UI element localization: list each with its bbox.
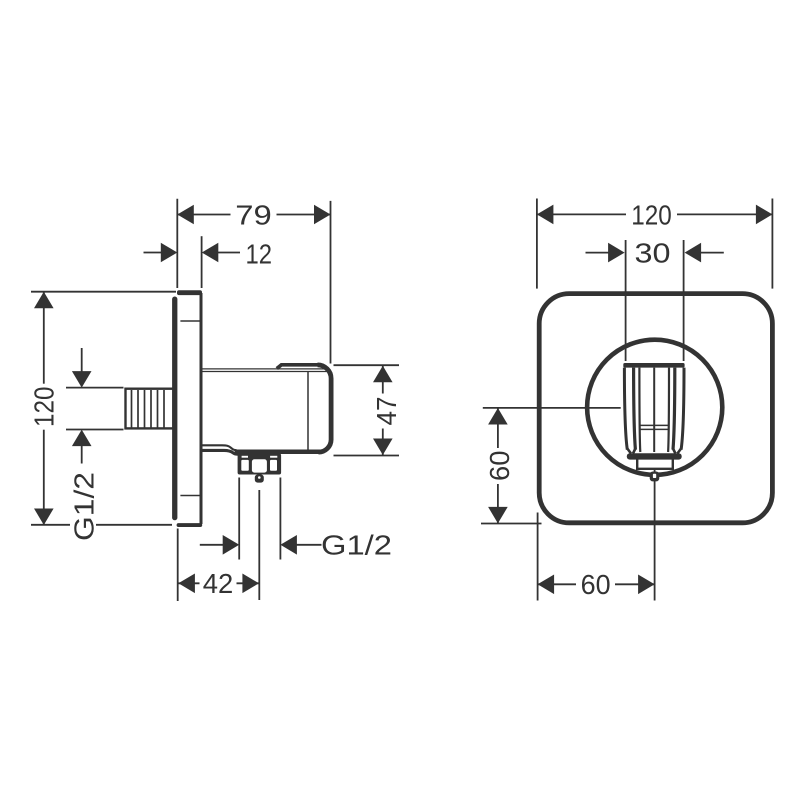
extension line: body right face (right ref for 79) bbox=[330, 201, 332, 364]
body outline: top lip, right face, bottom bbox=[235, 365, 332, 452]
arrowheads of dimension 120 bbox=[34, 292, 54, 525]
body bottom lower contour with step bbox=[203, 450, 239, 454]
extension line: flange wall face (left ref for 79 and 12) bbox=[176, 199, 178, 288]
extension line: flange front face (right ref for 12) bbox=[201, 236, 203, 288]
dimension line G1/2 outlet nut (outside arrows) bbox=[200, 544, 322, 546]
nut flat window right bbox=[270, 460, 277, 471]
value label G1/2 supply stub (rotated) bbox=[68, 471, 99, 541]
arrowheads of dimension G1/2 outlet nut bbox=[223, 535, 297, 555]
nut top slot left bbox=[242, 456, 248, 458]
body right face thick edge bbox=[318, 365, 332, 452]
value label 60 (bottom) bbox=[576, 569, 615, 600]
arrowheads of dimension G1/2 supply stub bbox=[72, 371, 92, 446]
holder foot chamfer left bbox=[627, 449, 635, 454]
body top second edge line bbox=[203, 371, 328, 373]
dimension line 42 bbox=[178, 582, 259, 584]
holder lower box bbox=[637, 460, 673, 469]
svg-text:120: 120 bbox=[631, 199, 672, 230]
holder collar circle bbox=[587, 340, 722, 475]
svg-text:47: 47 bbox=[371, 397, 402, 426]
body inner rim line bbox=[307, 372, 309, 450]
arrowheads of dimension 60 (left) bbox=[488, 408, 508, 523]
arrowheads of dimension 60 (bottom) bbox=[538, 575, 655, 595]
flange inner edge line upper bbox=[180, 320, 199, 322]
svg-text:120: 120 bbox=[29, 386, 60, 427]
svg-text:G1/2: G1/2 bbox=[321, 530, 392, 561]
spigot tab hole bbox=[258, 476, 261, 479]
holder bottom tab bbox=[650, 472, 660, 482]
svg-text:60: 60 bbox=[484, 450, 515, 481]
holder cup seam line lower bbox=[640, 428, 668, 430]
flange top cap bbox=[177, 290, 202, 295]
dimension line 12 (outside arrows) bbox=[144, 252, 241, 254]
thread hatch lines of supply stub bbox=[132, 390, 165, 428]
svg-text:G1/2: G1/2 bbox=[68, 472, 99, 541]
holder bottom bar bbox=[627, 453, 682, 459]
holder outer rail right bbox=[681, 368, 684, 450]
dimension line 120 (left view height) bbox=[43, 292, 45, 525]
outlet hex nut body bbox=[238, 454, 282, 475]
holder top bar bbox=[623, 363, 684, 368]
holder cup seam line upper bbox=[640, 424, 668, 426]
arrowheads of dimension 12 bbox=[161, 243, 219, 263]
escutcheon square plate bbox=[539, 294, 772, 523]
holder inner rail left bbox=[634, 368, 636, 450]
arrowheads of dimension 42 bbox=[178, 574, 259, 594]
flange bottom cap bbox=[177, 523, 203, 527]
holder foot chamfer right bbox=[673, 449, 681, 454]
outlet spigot tab bbox=[255, 475, 264, 483]
dimension line 30 (outside arrows) bbox=[586, 252, 724, 254]
extension line: escutcheon right edge (ref for 120 width) bbox=[771, 199, 773, 289]
extension line: body bottom (bottom ref for 47) bbox=[334, 455, 400, 457]
holder cup left edge bbox=[638, 368, 641, 452]
svg-text:42: 42 bbox=[203, 568, 234, 599]
dimension line 60 (left vertical) bbox=[497, 408, 499, 523]
extension line: escutcheon left edge (ref for 120 width) bbox=[536, 199, 538, 289]
extension line: holder right (ref for 30) bbox=[683, 240, 685, 361]
svg-text:79: 79 bbox=[235, 199, 272, 230]
nut top slot right bbox=[270, 456, 277, 458]
extension line: outlet nut left (ref for bottom G1/2) bbox=[238, 478, 240, 560]
svg-text:30: 30 bbox=[635, 238, 671, 269]
extension line: flange top (top ref for 120) bbox=[31, 291, 176, 293]
extension line: escutcheon left edge (left ref for bottom 60) bbox=[537, 513, 539, 601]
arrowheads of dimension 47 bbox=[373, 366, 393, 455]
holder outer rail left bbox=[624, 368, 627, 450]
svg-text:60: 60 bbox=[581, 569, 611, 600]
dimension line 60 (bottom horizontal) bbox=[538, 583, 655, 585]
value label 120 (front) bbox=[626, 199, 677, 230]
svg-text:12: 12 bbox=[246, 238, 273, 269]
flange wall seal bar bbox=[172, 297, 177, 521]
value label 60 (left, rotated) bbox=[484, 448, 515, 484]
body bottom upper contour with step bbox=[203, 445, 237, 450]
arrowheads of dimension 30 bbox=[608, 243, 701, 263]
value label 47 (rotated) bbox=[371, 394, 402, 429]
extension line: escutcheon bottom (bottom ref for left 60) bbox=[481, 523, 542, 525]
extension line: body top (top ref for 47) bbox=[334, 364, 400, 366]
extension line: outlet axis (right ref for 42) bbox=[258, 490, 260, 600]
flange inner edge line lower bbox=[180, 495, 199, 497]
holder bottom tab notch bbox=[653, 474, 656, 478]
body top silhouette line bbox=[203, 368, 328, 370]
extension line: horizontal centerline (top ref for 60) bbox=[483, 407, 621, 409]
holder cup center seam bbox=[653, 368, 655, 452]
body bottom edge line bbox=[235, 449, 327, 451]
nut flat window left bbox=[241, 460, 249, 471]
arrowheads of dimension 120 (front) bbox=[537, 205, 773, 225]
extension line: supply stub bottom (ref for G1/2) bbox=[66, 429, 124, 431]
value label 120 (rotated) bbox=[29, 384, 60, 430]
extension line: wall plane (left ref for 42) bbox=[177, 529, 179, 602]
extension line: holder left (ref for 30) bbox=[625, 240, 627, 361]
extension line: flange bottom (bottom ref for 120) bbox=[31, 524, 172, 526]
flange front face line bbox=[200, 293, 203, 524]
dimension line G1/2 supply stub (outside arrows) bbox=[81, 348, 83, 464]
threaded supply stub outline bbox=[126, 389, 174, 429]
value label 42 bbox=[200, 568, 237, 599]
dimension line 79 bbox=[177, 214, 330, 216]
dimension line 120 (front width) bbox=[537, 213, 773, 215]
dimension line 47 (body height) bbox=[382, 366, 384, 455]
holder cup right edge bbox=[667, 368, 670, 452]
extension line: outlet nut right (ref for bottom G1/2) bbox=[279, 478, 281, 560]
holder inner rail right bbox=[673, 368, 675, 450]
value label 79 bbox=[231, 199, 277, 230]
arrowheads of dimension 79 bbox=[177, 205, 330, 225]
extension line: supply stub top (ref for G1/2) bbox=[66, 387, 124, 389]
nut flat window middle bbox=[252, 459, 267, 472]
extension line: vertical centerline (right ref for bottom 60) bbox=[654, 470, 656, 601]
